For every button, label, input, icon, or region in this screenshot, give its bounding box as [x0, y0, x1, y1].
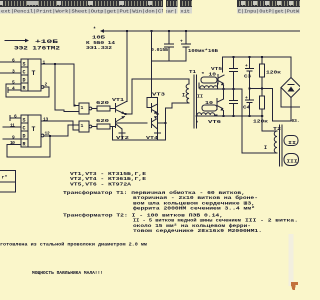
wire rail to VT3 base	[147, 30, 158, 108]
svg-text:г*: г*	[2, 175, 8, 181]
svg-text:II: II	[288, 140, 296, 146]
svg-text:VT1: VT1	[112, 97, 124, 103]
transformer T2 secondary III	[284, 154, 299, 166]
label transformer T2 note	[63, 212, 298, 235]
transistor Q3 VT3	[152, 91, 166, 114]
svg-text:10Б: 10Б	[92, 35, 105, 41]
U1 pin 2 inverted output and feedback wire	[6, 82, 49, 98]
wire VT5 collector to rail2 corner	[222, 57, 224, 72]
node midpoint VT1 VT2	[125, 113, 127, 115]
transformer T1 secondary upper winding 10 turns	[199, 72, 218, 89]
svg-text:Трансформатор Т1: первичная об: Трансформатор Т1: первичная обмотка - 60…	[63, 189, 245, 196]
transistor Q2 VT2	[116, 116, 130, 141]
wire midpoint2 stub	[158, 122, 166, 124]
node junction dot y123	[164, 122, 166, 124]
transistor Q1 VT1	[112, 97, 127, 114]
capacitor C2 100mk electrolytic	[180, 30, 218, 61]
transformer T2 primary winding I	[264, 131, 277, 153]
svg-text:620: 620	[96, 118, 109, 124]
wire FF1 Q to gate1 top input	[73, 64, 79, 107]
U1 pin 6 wire S input	[0, 58, 21, 64]
power rail +10V	[100, 29, 300, 33]
wire mid rail M2	[196, 115, 263, 117]
U2 pin 10 wire R input	[8, 140, 21, 146]
svg-text:*: *	[93, 27, 96, 33]
svg-text:*: *	[196, 121, 199, 127]
label K 5b0 14	[86, 40, 115, 46]
U2 pin 11 wire C input	[3, 123, 21, 129]
svg-text:E|Inpu|OutP|get|PutW: E|Inpu|OutP|get|PutW	[238, 9, 299, 15]
wire gate2 out	[92, 126, 97, 128]
svg-text:620: 620	[96, 100, 109, 106]
wire VT6 collector up to mid rail	[223, 89, 225, 99]
svg-text:+10Б: +10Б	[35, 39, 58, 45]
wire bridge top to rail2	[290, 57, 292, 78]
U2 pin 12 inverted output	[41, 125, 79, 137]
svg-text:VT5: VT5	[211, 66, 222, 72]
node star mark	[93, 27, 96, 33]
rail2 horizontal	[223, 56, 292, 58]
svg-text:VT2,VT4 - КТ361Б,Г,Е: VT2,VT4 - КТ361Б,Г,Е	[70, 176, 146, 182]
menu bar row1 right	[237, 0, 300, 7]
svg-text:ext|Pencil|Print|Work|Sheet|Ou: ext|Pencil|Print|Work|Sheet|Outp|get|Put…	[1, 9, 190, 15]
node midpoint VT3 VT4	[156, 113, 158, 115]
transformer T2 core	[280, 125, 283, 166]
transformer T2 secondary II	[284, 136, 298, 147]
wire down to ground rail	[165, 108, 167, 140]
transformer T1 label	[189, 69, 196, 75]
resistor R4 120k	[253, 96, 268, 125]
node junction dot pin12	[49, 135, 51, 137]
label transformer T1 note	[63, 189, 258, 212]
wire gate1 out	[92, 108, 97, 110]
gate U4 DD1.2	[79, 121, 92, 132]
svg-text:III: III	[287, 159, 298, 165]
wire cap ground link	[152, 60, 186, 62]
label DD1.332	[86, 45, 112, 51]
wire VT5 emitter to mid wire	[222, 85, 224, 90]
svg-text:D: D	[23, 134, 26, 140]
svg-text:C: C	[23, 70, 26, 76]
svg-text:ЭЭ2 176ТМ2: ЭЭ2 176ТМ2	[14, 46, 60, 52]
svg-text:товом сердечнике 28х16х9 М2000: товом сердечнике 28х16х9 М2000НМ1.	[133, 228, 262, 234]
wire mid rail M1	[200, 88, 242, 90]
svg-text:R: R	[23, 142, 26, 148]
svg-text:100мк*16Б: 100мк*16Б	[188, 48, 218, 54]
svg-text:VT6: VT6	[208, 119, 221, 125]
connector X1	[0, 171, 16, 193]
transformer T1 primary winding I	[182, 84, 189, 103]
svg-text:S: S	[23, 62, 26, 68]
resistor R1 620	[96, 100, 116, 111]
svg-text:Трансформатор Т2: I - 100 витк: Трансформатор Т2: I - 100 витков ПЭВ 0.1…	[63, 212, 223, 219]
wire VT1 collector to rail	[126, 30, 128, 102]
label 10B	[92, 35, 105, 41]
label 0.3	[292, 118, 300, 124]
label power warning	[32, 270, 103, 276]
transistor Q6 VT6	[208, 99, 224, 126]
svg-text:3: 3	[12, 69, 15, 75]
wire feedback FF2 to R input	[7, 136, 50, 157]
resistor R2 620	[96, 118, 116, 129]
label wire note	[0, 241, 147, 248]
svg-text:6: 6	[14, 114, 17, 120]
svg-text:II: II	[197, 94, 203, 100]
wire T2 primary bottom feed	[242, 89, 272, 153]
svg-text:С4: С4	[243, 105, 250, 111]
svg-text:4: 4	[12, 86, 15, 92]
svg-text:вторичная - 2х10 витков на бро: вторичная - 2х10 витков на броне-	[133, 194, 258, 201]
svg-text:вом шла кольцевом сердечнике Ш: вом шла кольцевом сердечнике Ш3,	[133, 200, 255, 206]
gate U3 DD1.1	[79, 103, 92, 114]
svg-text:120к: 120к	[253, 119, 268, 125]
wire bridge bottom leg	[290, 98, 292, 122]
wire T1 primary bottom staircase	[166, 103, 190, 108]
wire divider mid to bridge area	[248, 87, 291, 121]
ground rail bottom	[113, 127, 166, 140]
flip-flop U2 DD2.2 box	[21, 115, 41, 148]
transformer T2 label	[273, 126, 281, 132]
label transistor list	[70, 171, 146, 187]
svg-text:Т1: Т1	[189, 69, 196, 75]
cursor mark orange	[291, 282, 298, 290]
resistor R3 120k	[260, 56, 282, 96]
node junction dot FF1 out	[54, 63, 56, 65]
label DD2 176TM2	[14, 46, 60, 52]
svg-text:5: 5	[12, 80, 15, 86]
svg-text:S: S	[23, 118, 26, 124]
wire VT3 VT4 column	[157, 98, 159, 141]
svg-text:С3: С3	[244, 74, 251, 80]
U1 pin 1 output wire	[41, 60, 74, 66]
U1 pin 3 wire C input	[0, 69, 21, 75]
flip-flop U1 DD2.1 box	[21, 59, 41, 92]
wire VT2 collector to ground rail	[119, 129, 125, 140]
svg-text:ЭЭ1.ЗЗ2: ЭЭ1.ЗЗ2	[86, 45, 112, 51]
U2 pin 6 wire S input	[10, 114, 21, 121]
U2 pin 13 output wire to gate2	[41, 116, 79, 130]
U2 pin 9 wire D input	[3, 135, 21, 141]
menu bar row2 left buttons	[0, 7, 192, 15]
capacitor C5 column upper	[229, 56, 238, 90]
svg-text:T: T	[32, 70, 36, 77]
svg-text:R: R	[23, 86, 26, 92]
wire VT6 emitter down	[222, 111, 224, 118]
svg-text:I: I	[182, 93, 185, 99]
svg-text:II - 5 витков медной шины сече: II - 5 витков медной шины сечением	[133, 217, 241, 224]
svg-text:VT3: VT3	[152, 91, 165, 97]
wire midpoint to T1 primary top	[126, 79, 189, 114]
node +10V arrow label top-left	[5, 39, 58, 45]
svg-text:1: 1	[81, 123, 84, 129]
svg-text:6: 6	[12, 58, 15, 64]
svg-text:МОЩНОСТЬ ПАЯЛЬНИКА МАЛА!!!: МОЩНОСТЬ ПАЯЛЬНИКА МАЛА!!!	[32, 270, 103, 276]
svg-text:I: I	[264, 145, 267, 151]
svg-text:120к: 120к	[266, 70, 281, 76]
capacitor C6 column lower	[229, 89, 238, 117]
svg-text:феррита 2000НМ сечением 3..4 м: феррита 2000НМ сечением 3..4 мм²	[133, 205, 255, 212]
svg-text:T: T	[32, 126, 36, 133]
U1 pin 4 wire R input	[8, 86, 21, 93]
svg-text:0.015Б: 0.015Б	[151, 47, 168, 53]
capacitor C4 electrolytic	[243, 96, 254, 117]
svg-text:C: C	[23, 126, 26, 132]
svg-text:готовлена из стальной проволок: готовлена из стальной проволоки диаметро…	[0, 241, 147, 248]
diode bridge VD1	[281, 78, 301, 98]
transformer T1 core	[194, 75, 197, 128]
wire bridge left leg	[281, 88, 300, 108]
wire base link VT2 VT4	[116, 122, 148, 124]
svg-text:около 15 мм² на кольцевом ферр: около 15 мм² на кольцевом ферри-	[133, 222, 251, 229]
svg-text:9: 9	[12, 135, 15, 141]
scrollbar strip	[289, 234, 294, 286]
capacitor C1 0.015	[151, 30, 174, 61]
svg-text:0З.: 0З.	[292, 118, 300, 124]
svg-text:1: 1	[43, 60, 46, 66]
menu bar gaps	[163, 0, 180, 14]
wire T2 primary top feed	[262, 116, 272, 131]
transistor Q5 VT5	[211, 66, 224, 85]
svg-text:VT5,VT6 - КТ972А: VT5,VT6 - КТ972А	[70, 181, 131, 187]
transformer T1 secondary lower winding	[196, 94, 218, 127]
svg-text:VT1,VT3 - КТ315Б,Г,Е: VT1,VT3 - КТ315Б,Г,Е	[70, 171, 146, 177]
svg-text:D: D	[23, 78, 26, 84]
svg-text:13: 13	[43, 116, 49, 122]
svg-text:VT4: VT4	[146, 135, 158, 141]
menu bar row1 left	[0, 0, 192, 7]
svg-text:1: 1	[81, 105, 84, 111]
capacitor C3 electrolytic	[244, 56, 254, 100]
U1 pin 5 wire D input	[6, 80, 21, 86]
menu bar row2 right buttons	[237, 7, 300, 15]
wire FF1 Q to gate column	[55, 64, 79, 112]
svg-text:III - 2 витка.: III - 2 витка.	[245, 218, 298, 224]
transistor Q4 VT4	[146, 116, 161, 141]
